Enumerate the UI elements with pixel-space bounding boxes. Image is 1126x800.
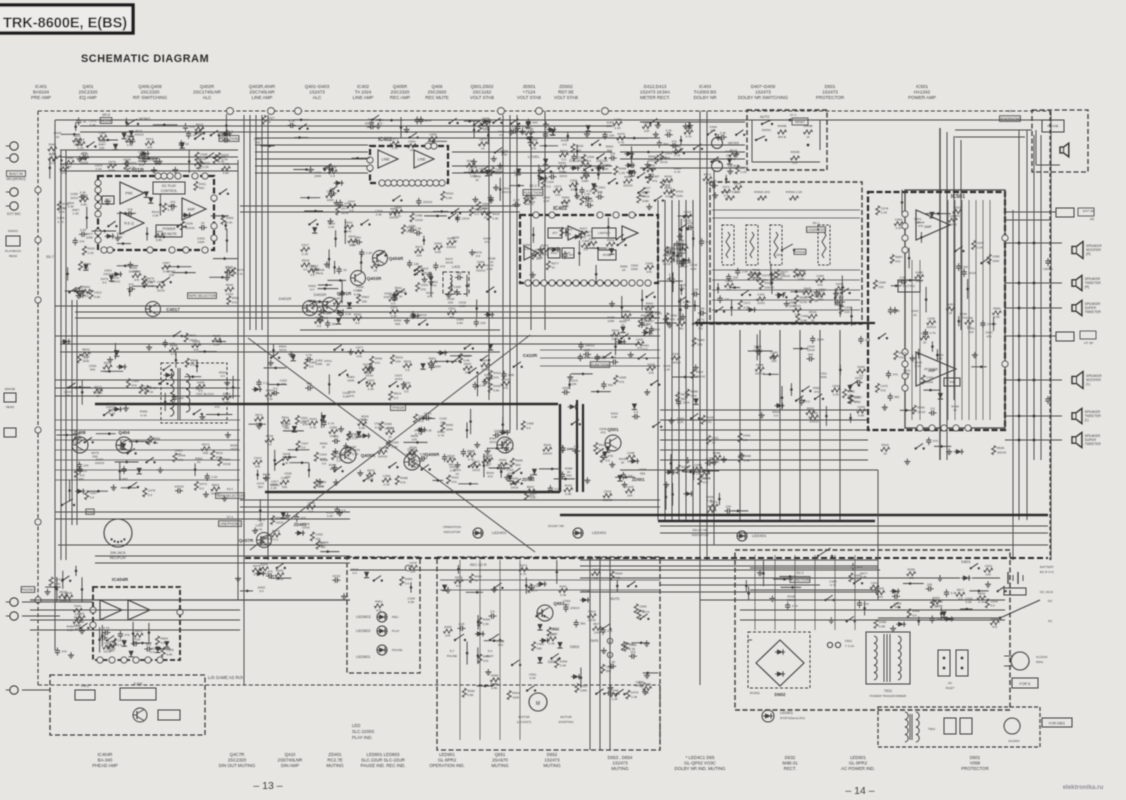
svg-text:3.3K: 3.3K — [501, 153, 508, 157]
svg-text:2.2K: 2.2K — [740, 170, 747, 174]
fuse F801 — [827, 642, 832, 647]
svg-text:100K: 100K — [327, 198, 335, 202]
svg-text:4.7K: 4.7K — [930, 331, 937, 335]
ac plug — [1011, 652, 1029, 670]
svg-text:22K: 22K — [726, 153, 732, 157]
svg-text:560: 560 — [608, 383, 613, 387]
svg-text:10/16: 10/16 — [157, 288, 165, 292]
mid horizontal buses — [55, 305, 700, 307]
svg-text:D653: D653 — [570, 645, 579, 649]
svg-text:TAPE SELECTOR: TAPE SELECTOR — [188, 294, 216, 298]
svg-text:2.2K: 2.2K — [530, 496, 537, 500]
svg-text:C498: C498 — [526, 421, 534, 425]
svg-text:R623: R623 — [59, 590, 67, 594]
svg-text:D466: D466 — [405, 577, 413, 581]
svg-text:10/16: 10/16 — [646, 310, 654, 314]
svg-text:SR-8: SR-8 — [102, 113, 110, 117]
right column caps — [1045, 260, 1050, 262]
svg-text:EXT MIC: EXT MIC — [7, 212, 21, 216]
svg-text:C478: C478 — [409, 561, 417, 565]
svg-text:SLC-2200S: SLC-2200S — [352, 729, 374, 734]
svg-text:0.0: 0.0 — [709, 513, 714, 517]
svg-text:MUTING: MUTING — [903, 284, 916, 288]
svg-text:47K: 47K — [986, 334, 992, 338]
svg-text:R534: R534 — [502, 377, 510, 381]
svg-text:3.3K: 3.3K — [895, 226, 902, 230]
svg-text:HA1342: HA1342 — [914, 90, 931, 95]
svg-text:S7-1: S7-1 — [790, 113, 797, 117]
svg-text:2.2K: 2.2K — [328, 225, 335, 229]
svg-text:470: 470 — [124, 633, 129, 637]
svg-text:47K: 47K — [495, 172, 501, 176]
svg-text:FOR E: FOR E — [1020, 682, 1032, 686]
svg-text:R519: R519 — [482, 359, 490, 363]
svg-text:470: 470 — [865, 338, 870, 342]
svg-text:R454: R454 — [663, 254, 671, 258]
svg-text:0.0: 0.0 — [930, 407, 935, 411]
q651 block wires — [440, 579, 660, 581]
svg-text:22K: 22K — [627, 474, 633, 478]
ext speaker wires upper — [1005, 211, 1056, 213]
svg-text:C698: C698 — [138, 150, 146, 154]
svg-text:D422: D422 — [581, 171, 589, 175]
svg-text:47K: 47K — [346, 229, 352, 233]
svg-text:2.2K: 2.2K — [664, 368, 671, 372]
svg-text:M: M — [536, 701, 540, 707]
svg-text:INLET: INLET — [946, 686, 955, 690]
svg-text:C440: C440 — [76, 477, 84, 481]
svg-text:470: 470 — [714, 460, 719, 464]
svg-text:C582: C582 — [670, 313, 678, 317]
svg-text:R577: R577 — [551, 261, 559, 265]
svg-text:4.7K: 4.7K — [690, 394, 697, 398]
svg-text:22K: 22K — [771, 359, 777, 363]
svg-text:C466: C466 — [614, 117, 622, 121]
svg-text:C429: C429 — [546, 180, 554, 184]
svg-text:AC240V: AC240V — [1008, 739, 1020, 743]
svg-text:4.7K: 4.7K — [256, 421, 263, 425]
coil L402 — [443, 272, 469, 294]
svg-text:4.7K: 4.7K — [318, 545, 325, 549]
svg-text:100K: 100K — [347, 378, 355, 382]
svg-text:EXT SP: EXT SP — [1083, 209, 1094, 213]
meter M1 — [712, 138, 723, 149]
svg-text:R548: R548 — [997, 446, 1005, 450]
svg-text:C657: C657 — [162, 261, 170, 265]
svg-text:Q405R: Q405R — [393, 84, 408, 89]
svg-text:560: 560 — [937, 357, 942, 361]
svg-text:47K: 47K — [357, 354, 363, 358]
transistor Q403R — [351, 271, 366, 286]
built-in mic jack — [10, 142, 18, 150]
svg-text:3.3K: 3.3K — [492, 216, 499, 220]
svg-text:R547: R547 — [407, 225, 415, 229]
svg-text:D437: D437 — [589, 237, 597, 241]
svg-text:10/16: 10/16 — [917, 410, 925, 414]
svg-text:IC404R: IC404R — [112, 577, 129, 583]
svg-text:0.0: 0.0 — [322, 461, 327, 465]
svg-text:3.3K: 3.3K — [80, 228, 87, 232]
svg-text:REC/PLAY: REC/PLAY — [110, 556, 127, 560]
svg-text:D465: D465 — [385, 422, 393, 426]
svg-text:R581: R581 — [232, 296, 240, 300]
svg-text:470: 470 — [232, 301, 237, 305]
svg-text:R640: R640 — [226, 283, 234, 287]
svg-text:RC602: RC602 — [750, 691, 760, 695]
svg-text:47K: 47K — [456, 584, 462, 588]
svg-text:R657: R657 — [213, 334, 221, 338]
svg-text:0.0: 0.0 — [273, 387, 278, 391]
svg-text:6.8K: 6.8K — [163, 270, 170, 274]
svg-text:560: 560 — [332, 322, 337, 326]
svg-text:DOLBY NR IND. MUTING: DOLBY NR IND. MUTING — [675, 766, 726, 771]
svg-text:100K: 100K — [817, 338, 825, 342]
dc play control box — [153, 182, 185, 194]
svg-text:100K: 100K — [607, 319, 615, 323]
svg-text:10/16: 10/16 — [585, 199, 593, 203]
battery symbol — [1007, 572, 1009, 584]
tone resistors row — [726, 196, 735, 200]
speaker feed verticals — [939, 128, 941, 460]
svg-text:C677: C677 — [479, 138, 487, 142]
svg-text:TRK-8600E, E(BS): TRK-8600E, E(BS) — [3, 16, 127, 32]
svg-text:R458: R458 — [907, 568, 915, 572]
svg-text:6.8K: 6.8K — [81, 202, 88, 206]
svg-text:R624: R624 — [696, 370, 704, 374]
svg-text:4.7K: 4.7K — [103, 626, 110, 630]
svg-text:EQ AMP: EQ AMP — [79, 95, 96, 100]
svg-text:PAUSE: PAUSE — [447, 654, 457, 658]
svg-text:C460: C460 — [895, 217, 903, 221]
svg-text:0.0: 0.0 — [84, 356, 89, 360]
svg-text:D468: D468 — [126, 134, 134, 138]
svg-text:3.3K: 3.3K — [743, 458, 750, 462]
svg-text:10/16: 10/16 — [588, 618, 596, 622]
svg-text:R649: R649 — [170, 344, 178, 348]
terminal node left border — [35, 187, 41, 193]
svg-text:SD-1: SD-1 — [812, 221, 819, 225]
svg-text:C524: C524 — [649, 328, 657, 332]
svg-text:LED803: LED803 — [356, 614, 371, 619]
ot sp jack — [1056, 332, 1074, 341]
svg-text:AUTO: AUTO — [760, 115, 770, 119]
svg-text:3.3K: 3.3K — [487, 267, 494, 271]
svg-text:C460: C460 — [801, 314, 809, 318]
svg-text:0.0: 0.0 — [584, 248, 589, 252]
svg-text:R470: R470 — [367, 468, 375, 472]
svg-text:100/10: 100/10 — [570, 606, 580, 610]
svg-text:47K: 47K — [82, 151, 88, 155]
svg-text:47K: 47K — [285, 475, 291, 479]
op-amp LINE 2 in IC402 — [414, 150, 434, 168]
svg-text:LINE AMP: LINE AMP — [252, 95, 273, 100]
dc jack — [1004, 588, 1026, 595]
svg-text:Q501: Q501 — [607, 427, 619, 432]
svg-text:SLC-22UR SLC-22UR: SLC-22UR SLC-22UR — [361, 758, 405, 763]
svg-text:6.8K: 6.8K — [354, 292, 361, 296]
svg-text:SE-2: SE-2 — [529, 184, 537, 188]
svg-text:10/16: 10/16 — [511, 485, 519, 489]
svg-text:22K: 22K — [726, 505, 732, 509]
svg-text:R432: R432 — [607, 238, 615, 242]
svg-text:C443: C443 — [120, 477, 128, 481]
svg-text:HEAD: HEAD — [9, 254, 18, 258]
svg-text:10/16: 10/16 — [799, 300, 807, 304]
svg-text:C478: C478 — [605, 454, 613, 458]
svg-text:0.0: 0.0 — [274, 537, 279, 541]
svg-text:C645: C645 — [117, 639, 125, 643]
svg-text:C4017: C4017 — [166, 307, 180, 312]
svg-text:47K: 47K — [62, 171, 68, 175]
svg-text:22K: 22K — [504, 446, 510, 450]
svg-text:R441: R441 — [529, 195, 537, 199]
svg-text:22K: 22K — [610, 152, 616, 156]
svg-text:6.8K: 6.8K — [584, 356, 591, 360]
svg-text:D435: D435 — [836, 282, 844, 286]
svg-text:C566: C566 — [307, 501, 315, 505]
svg-text:0.0: 0.0 — [353, 571, 358, 575]
svg-text:C411: C411 — [712, 436, 719, 440]
svg-text:TAPE SELECTOR: TAPE SELECTOR — [216, 494, 244, 498]
svg-text:(R): (R) — [1090, 217, 1094, 221]
svg-text:S5-7: S5-7 — [46, 255, 54, 259]
svg-text:0.0: 0.0 — [598, 190, 603, 194]
svg-text:10/16: 10/16 — [341, 211, 349, 215]
power transformer T631 — [866, 632, 910, 684]
svg-text:1S2473: 1S2473 — [822, 90, 838, 95]
svg-text:2SD740LNR: 2SD740LNR — [278, 758, 303, 763]
svg-text:D801: D801 — [961, 559, 971, 564]
svg-text:C410R: C410R — [523, 353, 538, 358]
svg-text:R580: R580 — [66, 156, 74, 160]
svg-text:0.0: 0.0 — [150, 650, 155, 654]
svg-text:OPERATION: OPERATION — [443, 525, 461, 529]
svg-text:D479: D479 — [617, 132, 625, 136]
svg-text:470: 470 — [918, 224, 923, 228]
svg-text:R/F SWITCHING: R/F SWITCHING — [133, 95, 168, 100]
svg-text:22K: 22K — [627, 493, 633, 497]
svg-text:INDICATOR: INDICATOR — [444, 530, 461, 534]
transistor Q405R — [340, 447, 356, 463]
tape selector row components — [81, 380, 83, 405]
svg-text:R635: R635 — [544, 443, 552, 447]
caps under Q408 Q404 — [77, 468, 82, 470]
svg-text:R634: R634 — [599, 443, 607, 447]
svg-text:100/10: 100/10 — [270, 483, 280, 487]
svg-text:2.2K: 2.2K — [833, 392, 840, 396]
svg-text:22K: 22K — [178, 396, 184, 400]
svg-text:2SC740LNR: 2SC740LNR — [249, 90, 275, 95]
svg-text:D493: D493 — [743, 434, 751, 438]
svg-text:C473: C473 — [365, 365, 373, 369]
svg-text:0.0: 0.0 — [309, 365, 314, 369]
svg-text:0.0: 0.0 — [404, 390, 409, 394]
svg-text:GL-9PR2: GL-9PR2 — [438, 758, 457, 763]
svg-text:C684: C684 — [654, 312, 662, 316]
svg-text:22K: 22K — [416, 253, 422, 257]
svg-text:47K: 47K — [864, 602, 870, 606]
svg-text:C491: C491 — [757, 293, 765, 297]
svg-text:TAPE: TAPE — [590, 639, 599, 643]
svg-text:R692: R692 — [74, 615, 82, 619]
svg-text:22K: 22K — [99, 146, 105, 150]
svg-text:C501R: C501R — [1043, 267, 1053, 271]
svg-text:C427: C427 — [267, 116, 275, 120]
svg-text:10/16: 10/16 — [230, 447, 238, 451]
svg-text:C430: C430 — [844, 305, 852, 309]
svg-text:METER: METER — [728, 141, 740, 145]
svg-text:C477: C477 — [356, 346, 364, 350]
svg-text:22K: 22K — [878, 285, 884, 289]
svg-text:0.0: 0.0 — [349, 208, 354, 212]
far right vertical bus wires — [1018, 130, 1020, 520]
svg-text:C523: C523 — [129, 161, 137, 165]
svg-text:Q401~D403: Q401~D403 — [305, 84, 330, 89]
svg-text:AMP: AMP — [928, 369, 936, 373]
svg-text:R469: R469 — [375, 357, 383, 361]
svg-text:R613: R613 — [588, 610, 596, 614]
svg-text:IC404R: IC404R — [98, 752, 113, 757]
svg-text:C578: C578 — [881, 206, 889, 210]
svg-text:10/16: 10/16 — [462, 216, 470, 220]
svg-text:4.7K: 4.7K — [84, 291, 91, 295]
svg-text:0.0: 0.0 — [499, 133, 504, 137]
phone jack box — [1042, 120, 1064, 132]
svg-text:100/10: 100/10 — [987, 322, 997, 326]
svg-text:R481: R481 — [660, 156, 668, 160]
svg-text:D601: D601 — [970, 755, 981, 760]
svg-text:R581: R581 — [565, 228, 573, 232]
svg-text:C668: C668 — [878, 280, 886, 284]
svg-text:2.2K: 2.2K — [692, 288, 699, 292]
svg-text:R534: R534 — [302, 259, 310, 263]
svg-text:47K: 47K — [306, 382, 312, 386]
function switch label SR-2 — [219, 136, 239, 142]
svg-text:REC AMP: REC AMP — [390, 95, 410, 100]
transistor Q401R — [323, 298, 338, 313]
svg-text:RTAE: RTAE — [603, 253, 611, 257]
svg-text:100K: 100K — [483, 128, 491, 132]
svg-text:6.8K: 6.8K — [359, 426, 366, 430]
svg-text:D632: D632 — [785, 755, 796, 760]
svg-text:Q401: Q401 — [82, 84, 94, 89]
for d801 label — [1042, 718, 1072, 727]
svg-text:R493: R493 — [512, 691, 520, 695]
svg-text:100/10: 100/10 — [671, 360, 681, 364]
svg-text:D468: D468 — [670, 247, 678, 251]
svg-text:10/16: 10/16 — [445, 261, 453, 265]
svg-text:47K: 47K — [147, 146, 153, 150]
svg-text:C569: C569 — [132, 379, 140, 383]
svg-text:2.2K: 2.2K — [368, 387, 375, 391]
svg-text:C597: C597 — [503, 437, 511, 441]
svg-text:R455: R455 — [446, 423, 454, 427]
svg-text:LINE/PHONO: LINE/PHONO — [220, 522, 241, 526]
area left of IC501 — [781, 386, 783, 409]
headphone speaker — [1060, 143, 1069, 157]
svg-text:AMP: AMP — [924, 225, 932, 229]
svg-text:Q401R: Q401R — [337, 291, 352, 296]
svg-text:100/10: 100/10 — [383, 295, 393, 299]
svg-text:3.3K: 3.3K — [951, 591, 958, 595]
top strip components — [408, 136, 410, 138]
svg-text:470: 470 — [672, 139, 677, 143]
svg-text:R673: R673 — [202, 443, 210, 447]
svg-text:2SC2320: 2SC2320 — [79, 90, 98, 95]
svg-text:22K: 22K — [963, 265, 969, 269]
svg-text:R411: R411 — [552, 628, 559, 632]
svg-text:R455: R455 — [226, 216, 234, 220]
svg-text:LINE: LINE — [382, 157, 391, 161]
svg-text:2SC2320: 2SC2320 — [391, 90, 410, 95]
svg-text:22K: 22K — [482, 206, 488, 210]
svg-text:47K: 47K — [817, 283, 823, 287]
svg-text:Q404R: Q404R — [389, 256, 404, 261]
line phono label — [219, 521, 242, 527]
svg-text:C677: C677 — [341, 207, 349, 211]
Lch same as Rch dashed box — [50, 675, 205, 735]
svg-text:AC: AC — [1048, 619, 1053, 623]
svg-text:10/16: 10/16 — [481, 367, 489, 371]
svg-text:D465: D465 — [857, 365, 865, 369]
svg-text:47K: 47K — [190, 125, 196, 129]
svg-text:DOLBY NR SWITCHING: DOLBY NR SWITCHING — [738, 95, 788, 100]
mid vertical bus wires — [502, 115, 504, 430]
svg-text:47K: 47K — [400, 481, 406, 485]
svg-text:560: 560 — [532, 121, 537, 125]
svg-text:R615: R615 — [612, 328, 620, 332]
svg-text:R451: R451 — [559, 584, 567, 588]
svg-text:470: 470 — [936, 617, 941, 621]
svg-text:D466: D466 — [444, 625, 452, 629]
svg-text:OT SP: OT SP — [1084, 341, 1093, 345]
outer dashed border — [38, 110, 1050, 112]
svg-text:CONTROL: CONTROL — [161, 189, 178, 193]
svg-text:50Hz: 50Hz — [1036, 660, 1044, 664]
svg-text:LED401: LED401 — [752, 533, 767, 538]
svg-text:3.3K: 3.3K — [631, 695, 638, 699]
svg-text:100/10: 100/10 — [997, 451, 1007, 455]
svg-text:6.8K: 6.8K — [166, 653, 173, 657]
svg-text:560: 560 — [894, 395, 899, 399]
svg-text:R413: R413 — [146, 137, 154, 141]
svg-text:100K: 100K — [581, 179, 589, 183]
svg-text:R629: R629 — [148, 279, 156, 283]
svg-text:R580: R580 — [697, 338, 705, 342]
svg-text:560: 560 — [640, 471, 645, 475]
svg-text:560: 560 — [449, 456, 454, 460]
svg-text:2SC2920: 2SC2920 — [428, 90, 447, 95]
zener ZD401 — [297, 530, 303, 535]
svg-text:C572: C572 — [722, 185, 730, 189]
svg-text:GL-QP02 VO3C: GL-QP02 VO3C — [684, 761, 716, 766]
svg-text:D421: D421 — [73, 134, 81, 138]
svg-text:R492: R492 — [474, 574, 482, 578]
svg-text:470: 470 — [531, 146, 536, 150]
svg-text:IC402: IC402 — [357, 84, 370, 89]
svg-text:C664: C664 — [477, 260, 485, 264]
svg-text:100K: 100K — [314, 174, 322, 178]
svg-text:560: 560 — [90, 368, 95, 372]
d801 boxes — [944, 718, 956, 734]
svg-text:R676: R676 — [202, 161, 210, 165]
svg-text:3.3K: 3.3K — [152, 214, 159, 218]
svg-text:22K: 22K — [448, 300, 454, 304]
svg-text:IC501: IC501 — [951, 194, 965, 200]
svg-text:L40: L40 — [196, 387, 201, 391]
headphone dashed box — [1032, 110, 1088, 172]
svg-text:C444: C444 — [178, 454, 186, 458]
